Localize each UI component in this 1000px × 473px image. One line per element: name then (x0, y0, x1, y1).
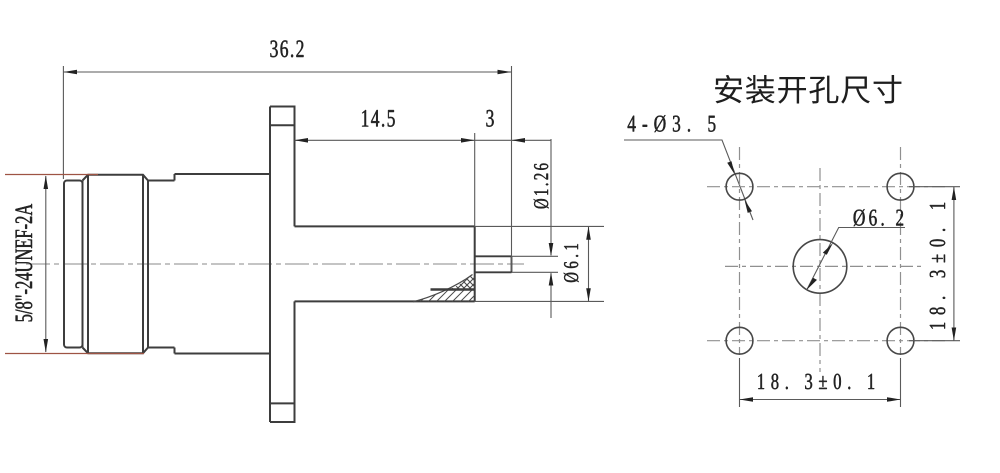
dim 3 arrow (512, 138, 526, 143)
dim 14.5 arrows (295, 138, 309, 143)
crosshatch upper wedge (422, 270, 500, 300)
dim text 14.5 (362, 110, 395, 127)
title 安装开孔尺寸 (715, 75, 901, 104)
hole callout 4-O3.5 (628, 115, 716, 132)
thread label 5/8-24UNEF-2A (rotated) (15, 204, 32, 321)
dim 14.5 and 3 lines (295, 133, 552, 226)
dim O1.26 extension+line (512, 139, 559, 318)
dim text 18.3+-0.1 horizontal (758, 374, 874, 390)
leader for O6.2 (807, 228, 905, 290)
mounting hole top-right (887, 173, 914, 200)
dim 36.2 arrows (63, 70, 77, 75)
mid step section (148, 174, 175, 354)
dim text 18.3+-0.1 vertical (rotated) (930, 203, 946, 329)
flange (270, 107, 295, 423)
leader arrows (727, 161, 734, 174)
dim text 3 (486, 110, 493, 127)
solder fillet curve (413, 275, 473, 302)
dim bottom 18.3 lines (740, 358, 901, 407)
dim text O6.1 (rotated) (564, 244, 579, 282)
dim text 36.2 (270, 40, 303, 57)
leader for 4-O3.5 (624, 140, 753, 220)
dim O6.1 extension lines (475, 226, 604, 301)
thread extension lines (reddish) (5, 175, 144, 354)
dim 36.2 extension lines (63, 66, 511, 271)
hatch lower band (404, 289, 478, 302)
thread dim arrows (44, 176, 49, 190)
mounting hole top-left (726, 173, 753, 200)
dielectric boundary (431, 288, 475, 290)
flange hole section lines (270, 125, 295, 403)
centerline main axis (26, 263, 524, 265)
center hole (793, 240, 847, 294)
dim bottom 18.3 arrows (740, 397, 754, 402)
centerlines of hole pattern (707, 147, 948, 372)
mounting hole bottom-left (726, 327, 753, 354)
dim O1.26 arrows (549, 243, 554, 256)
leader arrows O6.2 (823, 243, 833, 255)
dim 5/8 thread line (45, 176, 47, 352)
dim right 18.3 arrows (952, 187, 957, 200)
center pin (475, 256, 512, 272)
dim right 18.3 lines (909, 187, 960, 341)
center hole callout O6.2 (854, 209, 904, 226)
mounting hole bottom-right (887, 327, 914, 354)
stem cylinder (295, 226, 475, 301)
dim O6.1 arrows (586, 226, 591, 239)
coupling nut (83, 175, 149, 353)
connector left end cap (64, 181, 83, 348)
dim text O1.26 (rotated) (534, 164, 549, 209)
main body (175, 107, 271, 423)
